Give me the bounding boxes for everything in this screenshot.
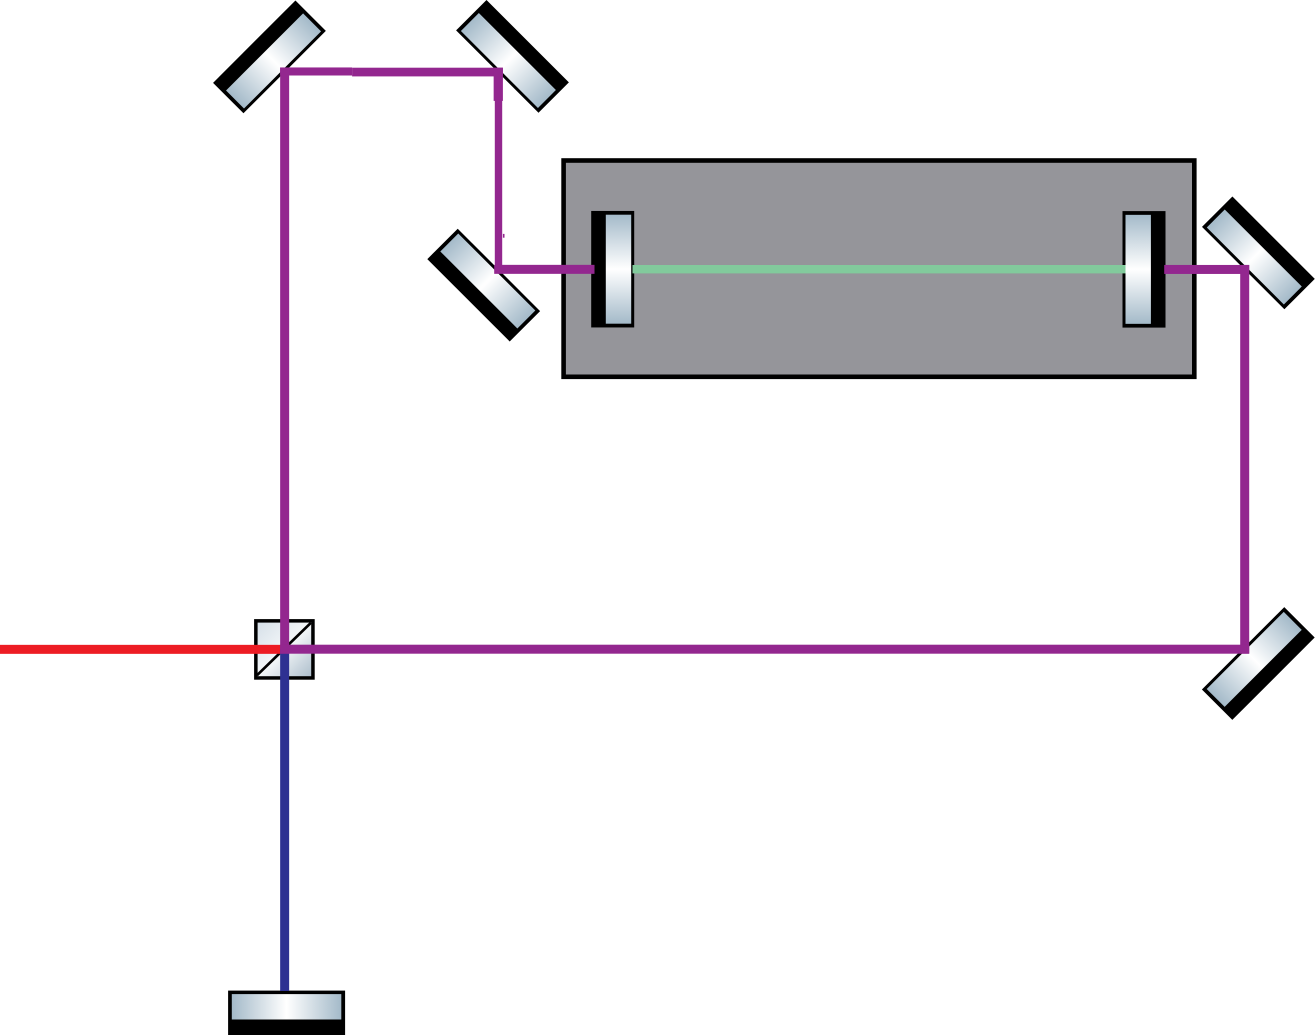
cavity mirror left: [591, 211, 634, 328]
cavity mirror right: [1123, 211, 1166, 328]
purple beam left vertical: [280, 68, 289, 654]
mirror top-right: [456, 0, 569, 113]
purple beam mid vertical lower: [495, 100, 505, 274]
purple beam main horizontal: [280, 645, 1249, 654]
purple beam top horizontal: [280, 67, 503, 76]
mirror right-top: [1202, 197, 1315, 310]
laser gain medium box: [564, 161, 1195, 377]
mirror right-bottom: [1202, 607, 1315, 720]
purple beam mid horizontal: [494, 265, 594, 274]
green intracavity beam: [633, 265, 1126, 273]
purple beam cavity-right horizontal: [1164, 265, 1249, 274]
blue output beam: [280, 649, 289, 991]
purple beam mid vertical upper: [494, 68, 503, 101]
mirror top-left: [213, 0, 326, 113]
beam splitter cube: [256, 621, 313, 678]
purple beam right vertical: [1240, 265, 1249, 654]
mirror bottom: [228, 991, 345, 1035]
red input beam: [0, 645, 285, 654]
mirror mid-left: [427, 229, 540, 342]
